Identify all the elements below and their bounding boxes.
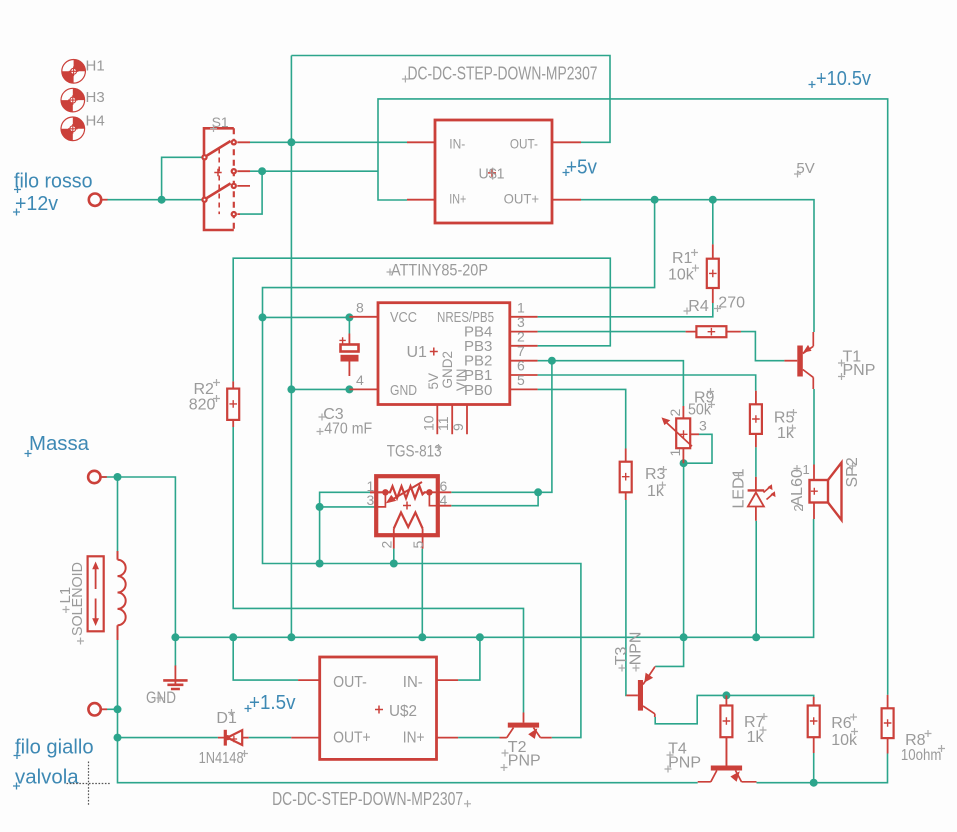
wire net NRES: R1 bottom to U1 pin1 [538,303,713,317]
blue net labels [14,68,871,789]
svg-text:Massa: Massa [29,433,90,455]
wire net PB2: branch down to TGS pin6 [538,361,552,493]
wire net +5V: drop to VCC pin8 routing [263,200,655,318]
wire net GND: bottom ground rail [175,519,813,637]
transistor T3 NPN [626,666,655,717]
wire net +5V: C3 top lead drop [348,317,350,333]
svg-text:4: 4 [356,372,364,388]
node junction D1 branch [114,734,122,742]
solenoid actuator box L1 [88,556,104,631]
node +5V junction at x=654 [651,196,659,204]
wire net +12V: S1 contact2 run to U$1 IN+ riser [250,170,378,172]
wire net +12V: S1 contact4 loop [240,171,262,214]
dc-dc module U$1 box [407,120,581,223]
node junction VCC bottom run at x=319 [316,560,324,568]
node GND junction at pin4 row [287,385,295,393]
svg-text:5: 5 [517,372,525,388]
wire net +5V: U$1 OUT+ rail to T1 emitter [581,200,814,332]
wire net PB2: R9 wiper pin3 tie to pin1 [684,434,712,463]
mounting hole H4 [61,117,85,141]
mounting hole H3 [61,88,85,112]
svg-text:1: 1 [803,462,810,477]
wire net GND: LED1 cathode down to rail [755,521,757,638]
wire net GND: Massa junction down to L1 top [117,477,119,551]
svg-text:U$1: U$1 [479,165,505,182]
node GND rail junction at TGS pin5 [418,633,426,641]
wire net GND: stub to ground symbol [174,637,176,666]
wire net +5V: long run down-right to T2 emitter [263,317,581,737]
svg-text:SOLENOID: SOLENOID [69,562,86,636]
svg-text:H1: H1 [86,58,105,75]
pad filo giallo valvola [88,703,107,715]
svg-text:IN+: IN+ [449,191,466,207]
transistor T4 PNP [698,737,757,782]
svg-text:R2: R2 [194,381,215,398]
svg-text:SP2: SP2 [844,457,861,487]
resistor R2 820 [227,381,239,427]
wire net GND: T3 collector hook to rail [655,637,683,666]
resistor R3 1k [620,449,632,501]
svg-text:3: 3 [367,492,375,508]
node GND rail junction at U$2 OUT- [229,633,237,641]
svg-text:IN-: IN- [403,674,423,691]
wire net T3 emitter to R7/R6 [655,695,814,723]
svg-text:8: 8 [356,299,364,315]
resistor R7 1k [720,695,732,765]
wire net GND: U1 pin4 GND to vertical [291,388,349,390]
ground symbol GND [163,666,187,690]
transistor T1 PNP [784,332,813,389]
wire net GND: rail to U$2 OUT- [233,637,298,680]
svg-text:270: 270 [718,294,745,311]
wire net GND: Massa pad to rail [102,477,176,637]
svg-text:10ohm: 10ohm [901,747,942,764]
svg-text:OUT-: OUT- [510,136,538,152]
svg-text:2: 2 [517,328,525,344]
svg-text:R6: R6 [831,715,852,732]
svg-text:OUT-: OUT- [333,674,367,691]
wire net PB4: R4 to T1 base [741,332,785,361]
svg-text:NPN: NPN [627,632,644,666]
svg-text:ATTINY85-20P: ATTINY85-20P [391,261,488,280]
svg-text:470 mF: 470 mF [324,421,372,438]
wire net +12V: riser x=378, +10.5v top run, down to R8 top [378,99,888,695]
wire net GND: main left vertical x=291 [290,56,292,638]
wire net +5V: riser to TGS pin1 [320,492,372,563]
node GND rail junction at ground symbol [171,633,179,641]
svg-text:R3: R3 [645,466,666,483]
microcontroller U1 ATTINY85 box [349,303,537,435]
wire net +12V: branch up to S1 pole1 [162,157,202,199]
resistor R1 10k [707,244,719,303]
svg-text:U$2: U$2 [389,703,417,720]
svg-text:+12v: +12v [15,193,58,215]
node junction filo giallo pad [114,705,122,713]
svg-text:10k: 10k [668,266,695,283]
node junction Massa pad [114,473,122,481]
svg-text:OUT+: OUT+ [333,729,371,746]
blue label origin crosses [13,81,816,790]
svg-text:filo rosso: filo rosso [14,171,93,193]
svg-text:+10.5v: +10.5v [816,68,871,90]
node GND rail junction at U$2 IN- [476,633,484,641]
svg-text:DC-DC-STEP-DOWN-MP2307: DC-DC-STEP-DOWN-MP2307 [272,789,463,809]
node junction TGS pin6/pin4 [534,488,542,496]
wire net R6 bottom lead [813,753,815,783]
pad Massa [88,471,107,483]
svg-text:10: 10 [420,415,436,431]
wire net PB4: U1 pin3 to R4 [538,331,686,333]
node +5V junction at R1 top [709,196,717,204]
svg-text:820: 820 [189,397,216,414]
node GND junction at IN- row [287,138,295,146]
svg-text:9: 9 [450,423,466,431]
svg-text:valvola: valvola [15,767,79,789]
resistor R5 1k [750,391,762,448]
resistor R6 10k [808,697,820,753]
svg-text:filo giallo: filo giallo [15,737,94,759]
wire net GND: top run from vertical to U$1 OUT- [291,56,610,143]
svg-text:S1: S1 [212,114,229,130]
svg-text:H3: H3 [86,89,105,106]
svg-text:TGS-813: TGS-813 [387,443,442,461]
wire net PB2: U1 pin7 to R9 pin2 [538,361,684,406]
svg-text:1k: 1k [747,729,765,746]
pad filo rosso +12v [89,194,108,206]
svg-text:PNP: PNP [668,755,701,772]
wire net PB1: R5 bottom to LED1 anode [755,447,757,477]
svg-text:3: 3 [699,418,707,434]
svg-text:4: 4 [440,492,448,508]
resistor R4 270 [686,326,741,337]
svg-text:1: 1 [667,449,683,457]
dc-dc module U$2 box [291,657,458,759]
svg-text:2: 2 [667,409,683,417]
node PB2 junction at pin7 [548,357,556,365]
svg-text:H4: H4 [86,113,105,130]
wire net valvola: filo giallo pad vertical [107,708,118,710]
wire net PB3: U1 pin2 loop around top to R2 [233,258,610,381]
wire net +12V: filo rosso pad to S1 pole2 [107,199,202,201]
switch S1 [201,128,250,230]
wire net +5V: branch TGS pin3 [320,506,377,508]
wire net +5V: TGS pin2 drop [393,549,395,564]
LED LED1 [748,477,776,521]
svg-text:R4: R4 [688,298,709,315]
node junction R7 top [722,691,730,699]
svg-text:IN-: IN- [449,136,465,152]
wire net D1 cathode to U$2 OUT+ [249,737,292,739]
wire net +5V: pin8 VCC stub run [263,316,350,318]
svg-text:5: 5 [410,541,426,549]
node GND rail junction at LED [752,633,760,641]
node junction VCC bottom run at TGS pin2 [390,560,398,568]
node junction R6 bottom [810,779,818,787]
svg-text:VCC: VCC [390,309,417,326]
label TGS pin numbers [367,478,448,549]
mouse crosshair cursor [67,762,111,806]
diode D1 1N4148 [218,730,249,746]
wire net GND: R9 pin1 down to rail [683,463,685,637]
svg-text:U1: U1 [407,344,428,361]
node GND rail junction at x=291 [287,633,295,641]
wire net PB3: R2 bottom to T2 base [233,427,523,713]
svg-text:PNP: PNP [843,362,876,379]
svg-text:+1.5v: +1.5v [249,692,296,714]
wire net PB0: R3 bottom to T3 base [625,500,627,695]
node +12V junction at pad branch [158,196,166,204]
capacitor C3 [339,334,358,377]
svg-text:1: 1 [517,299,525,315]
wire net T1 collector to speaker pin1 [813,389,815,465]
wire net GND: rail to U$2 IN- [458,637,480,680]
svg-text:GND: GND [390,382,417,399]
svg-text:1N4148: 1N4148 [199,750,244,767]
node GND rail junction at R9/T3 [680,633,688,641]
wire net GND: S1 contact1 to U$1 IN- [250,141,407,143]
node S1 contact2 junction [258,167,266,175]
resistor R8 10ohm [882,695,894,754]
svg-text:2: 2 [378,541,394,549]
wire net NRES: +5V rail through R1 to U1 pin1 [712,200,714,245]
svg-text:IN+: IN+ [403,729,425,746]
svg-text:DC-DC-STEP-DOWN-MP2307: DC-DC-STEP-DOWN-MP2307 [408,64,598,84]
wire net T4 emitter to R6 bottom and R8 bottom [757,754,888,783]
speaker SP2 AL60 [810,463,842,521]
mounting hole H1 [62,60,86,84]
svg-text:+5v: +5v [566,157,597,179]
svg-text:OUT+: OUT+ [504,191,539,207]
node VCC junction left of pin8 [259,313,267,321]
transistor T2 PNP [500,713,552,739]
label U1 pin numbers [356,299,525,431]
svg-text:11: 11 [435,416,451,431]
node GND junction at C3 bottom [345,385,353,393]
svg-text:R1: R1 [672,250,693,267]
wire net U$2 IN+ to T2 collector [458,737,499,739]
svg-text:PNP: PNP [508,753,541,770]
potentiometer R9 50k [662,406,700,463]
wire net PB2: TGS pin4 branch [451,492,538,505]
wire net GND: TGS pin5 down to rail [421,549,423,638]
wire net PB2: TGS pin6 run [451,491,538,493]
wire net PB1: U1 pin6 to R5 top [538,375,756,391]
wire net valvola: L1 bottom down and bottom run to T4 collector [118,640,698,783]
node junction R9 pin1/pin3 [680,459,688,467]
wire net valvola: branch to D1 anode [118,737,218,739]
svg-text:GND2: GND2 [440,351,455,389]
wire net PB0: U1 pin5 to R3 top [538,389,626,448]
inductor L1 [118,551,126,640]
label U1 pin names [390,309,494,399]
svg-text:2: 2 [791,504,806,511]
node junction TGS pin3 riser [316,503,324,511]
node VCC junction at C3 top [345,313,353,321]
svg-text:5V: 5V [426,373,441,390]
svg-text:VIN: VIN [454,368,469,391]
gas sensor TGS-813 [370,476,451,548]
